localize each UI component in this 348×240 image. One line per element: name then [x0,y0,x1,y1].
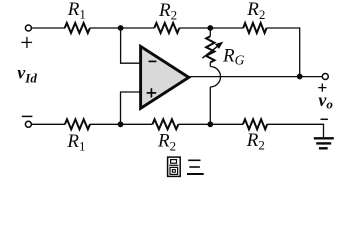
node junction R1/R2 top [118,25,124,31]
wire top rail left segment [32,27,65,29]
wire RG lower lead above hop [209,62,211,66]
resistor R2 top right [243,23,266,33]
terminal input bottom-left [25,121,31,127]
wire RG lead below hop to bottom rail [209,87,211,124]
resistor R1 top [65,23,90,33]
wire RG top lead [209,28,211,36]
label + (output) [318,84,326,92]
op-amp U1 [141,46,189,108]
op-amp - input sign [149,60,157,62]
node junction R2/RG bottom [207,121,213,127]
wire bottom rail right segment to ground corner [267,124,323,137]
label + (top-left) [21,37,32,48]
resistor R1 bottom [65,119,90,129]
wire bottom rail mid-left segment [90,123,152,125]
label - (bottom-left) [22,115,33,117]
terminal input top-left [25,25,31,31]
node junction R2/RG top [207,25,213,31]
resistor R2 bottom middle [152,119,178,129]
wire bottom rail mid-right segment [178,123,243,125]
caption 圖 (figure) [168,157,181,176]
terminal output vo [322,74,328,80]
wire top rail right + right vertical drop [267,28,300,77]
wire output node to terminal [300,76,323,78]
wire bottom rail left segment [32,123,65,125]
ground [314,138,334,148]
resistor RG (variable) [206,36,214,62]
wire inverting input (from top node down to op-amp) [121,28,142,63]
label - (output) [321,118,328,120]
resistor R2 bottom right [243,119,267,129]
wire top rail mid-left segment [90,27,154,29]
wire hop (vertical jumps over output wire) [210,67,220,87]
arrow of RG [202,46,218,59]
wire top rail mid-right segment [179,27,243,29]
resistor R2 top middle [154,23,179,33]
op-amp + input sign [147,88,157,97]
wire non-inverting input (from bottom node up to op-amp) [121,92,142,124]
node output junction [297,74,303,80]
caption 三 (three) [187,160,204,174]
node junction R1/R2 bottom [118,121,124,127]
wire op-amp output to output node [189,76,300,78]
